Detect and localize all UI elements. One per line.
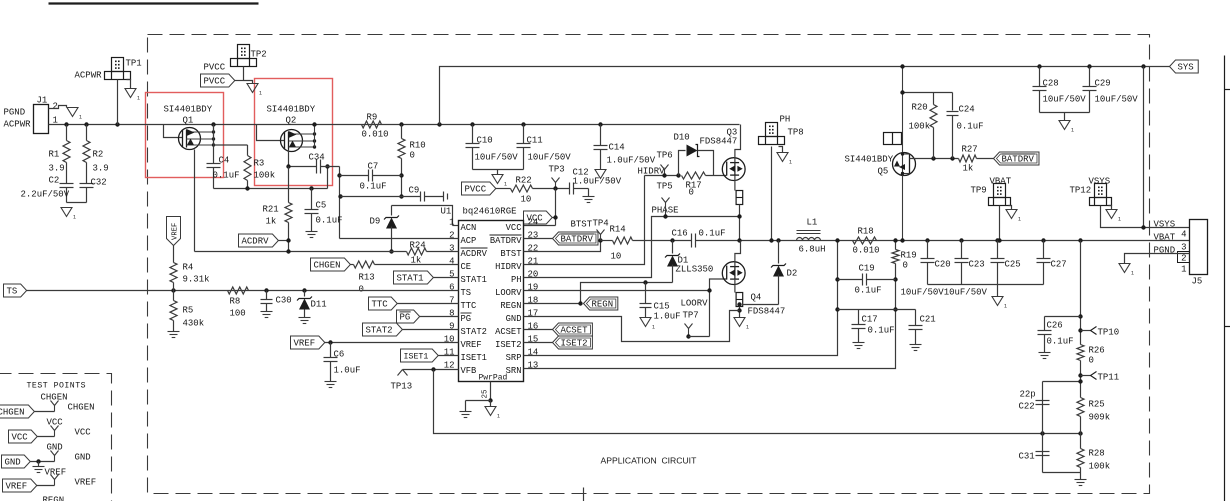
svg-text:22p: 22p: [1020, 390, 1036, 400]
svg-text:6: 6: [449, 283, 454, 293]
svg-text:VCC: VCC: [12, 433, 29, 443]
svg-text:TP9: TP9: [971, 186, 987, 196]
svg-text:TP5: TP5: [657, 182, 673, 192]
svg-text:C19: C19: [859, 264, 875, 274]
svg-text:ISET2: ISET2: [495, 340, 521, 350]
svg-text:PVCC: PVCC: [204, 63, 226, 73]
svg-text:TS: TS: [7, 287, 18, 297]
svg-text:3.9: 3.9: [93, 164, 109, 174]
svg-text:SI4401BDY: SI4401BDY: [267, 105, 316, 115]
svg-text:1: 1: [259, 91, 262, 97]
svg-text:GND: GND: [75, 453, 91, 463]
svg-text:ISET1: ISET1: [461, 353, 487, 363]
svg-text:1.0uF/50V: 1.0uF/50V: [607, 156, 656, 166]
svg-text:VREF: VREF: [6, 482, 28, 492]
svg-text:D9: D9: [370, 217, 381, 227]
svg-text:PwrPad: PwrPad: [479, 374, 508, 383]
svg-text:ACDRV: ACDRV: [242, 237, 270, 247]
svg-text:D10: D10: [674, 133, 690, 143]
svg-text:FDS8447: FDS8447: [748, 307, 786, 317]
svg-text:TS: TS: [461, 288, 472, 298]
svg-text:CHGEN: CHGEN: [41, 393, 68, 403]
svg-text:TP7: TP7: [683, 311, 699, 321]
svg-text:ISET2: ISET2: [561, 339, 588, 349]
svg-text:4: 4: [449, 257, 454, 267]
svg-text:10: 10: [444, 335, 455, 345]
svg-text:ACSET: ACSET: [561, 326, 589, 336]
svg-text:1: 1: [746, 325, 749, 331]
svg-text:R3: R3: [254, 159, 265, 169]
svg-text:PVCC: PVCC: [465, 185, 487, 195]
svg-text:R26: R26: [1089, 346, 1105, 356]
svg-text:VSYS: VSYS: [1089, 177, 1111, 187]
svg-text:C11: C11: [527, 136, 543, 146]
svg-text:VREF: VREF: [45, 468, 67, 478]
svg-text:REGN: REGN: [43, 496, 65, 501]
svg-text:VCC: VCC: [506, 223, 522, 233]
svg-text:100k: 100k: [909, 122, 931, 132]
svg-text:R13: R13: [359, 273, 375, 283]
svg-text:R1: R1: [49, 150, 60, 160]
svg-text:1: 1: [497, 414, 500, 420]
svg-text:PG: PG: [461, 314, 472, 324]
svg-text:C30: C30: [276, 296, 292, 306]
svg-text:PH: PH: [511, 275, 522, 285]
svg-text:1: 1: [652, 325, 655, 331]
svg-text:bq24610RGE: bq24610RGE: [463, 207, 517, 217]
svg-text:TP12: TP12: [1070, 186, 1092, 196]
svg-text:1k: 1k: [963, 164, 974, 174]
svg-text:TP6: TP6: [657, 151, 673, 161]
svg-text:10uF/50V10uF/50V: 10uF/50V10uF/50V: [901, 288, 988, 298]
svg-text:3: 3: [449, 244, 454, 254]
svg-text:21: 21: [528, 257, 539, 267]
svg-text:C2: C2: [49, 176, 60, 186]
svg-text:0: 0: [1089, 356, 1094, 366]
svg-text:ACDRV: ACDRV: [461, 249, 488, 259]
svg-text:0.010: 0.010: [853, 246, 880, 256]
svg-text:R20: R20: [912, 103, 928, 113]
svg-text:HIDRV: HIDRV: [638, 167, 666, 177]
svg-text:R4: R4: [183, 263, 194, 273]
svg-text:1: 1: [1004, 304, 1007, 310]
svg-text:PG: PG: [400, 313, 411, 323]
svg-text:C32: C32: [91, 178, 107, 188]
svg-text:16: 16: [528, 322, 539, 332]
svg-text:R9: R9: [367, 113, 378, 123]
svg-text:18: 18: [528, 296, 539, 306]
svg-text:24: 24: [528, 218, 539, 228]
svg-text:J1: J1: [37, 96, 48, 106]
svg-text:3.9: 3.9: [49, 164, 65, 174]
svg-text:GND: GND: [5, 458, 21, 468]
svg-text:TTC: TTC: [372, 300, 389, 310]
svg-text:PH: PH: [780, 115, 791, 125]
svg-text:BATDRV: BATDRV: [490, 236, 522, 246]
svg-text:R14: R14: [610, 225, 626, 235]
svg-text:SI4401BDY: SI4401BDY: [845, 155, 894, 165]
svg-text:430k: 430k: [183, 319, 205, 329]
svg-text:C5: C5: [316, 201, 327, 211]
svg-text:R27: R27: [962, 145, 978, 155]
svg-text:Q2: Q2: [286, 116, 297, 126]
svg-text:25: 25: [482, 389, 490, 399]
svg-text:VREF: VREF: [75, 478, 97, 488]
svg-text:15: 15: [528, 335, 539, 345]
svg-text:7: 7: [449, 296, 454, 306]
svg-text:8: 8: [449, 309, 454, 319]
svg-text:0.1uF: 0.1uF: [316, 216, 343, 226]
svg-text:C15: C15: [654, 302, 670, 312]
svg-text:0.1uF: 0.1uF: [855, 286, 882, 296]
svg-text:0.1uF: 0.1uF: [957, 122, 984, 132]
svg-text:REGN: REGN: [500, 301, 521, 311]
svg-text:1: 1: [449, 218, 454, 228]
svg-text:GND: GND: [47, 443, 63, 453]
svg-text:L1: L1: [807, 218, 818, 228]
svg-text:C21: C21: [920, 315, 936, 325]
svg-text:23: 23: [528, 231, 539, 241]
svg-text:100k: 100k: [254, 171, 276, 181]
svg-text:2: 2: [449, 231, 454, 241]
svg-text:1: 1: [1131, 271, 1134, 277]
svg-text:C31: C31: [1019, 452, 1035, 462]
svg-text:10uF/50V: 10uF/50V: [1043, 95, 1087, 105]
svg-text:ACP: ACP: [461, 236, 477, 246]
svg-text:6.8uH: 6.8uH: [799, 245, 826, 255]
svg-text:20: 20: [528, 270, 539, 280]
svg-text:14: 14: [528, 348, 539, 358]
svg-text:1: 1: [79, 115, 82, 121]
svg-text:0.1uF: 0.1uF: [360, 182, 387, 192]
svg-text:C28: C28: [1043, 79, 1059, 89]
svg-text:100k: 100k: [1089, 462, 1111, 472]
svg-text:TTC: TTC: [461, 301, 477, 311]
svg-text:1: 1: [1118, 217, 1121, 223]
svg-text:10: 10: [611, 252, 622, 262]
svg-text:0.010: 0.010: [362, 130, 389, 140]
svg-text:R18: R18: [858, 227, 874, 237]
svg-text:D2: D2: [787, 269, 798, 279]
svg-text:C6: C6: [334, 350, 345, 360]
svg-text:U1: U1: [441, 207, 452, 217]
svg-text:C29: C29: [1095, 79, 1111, 89]
svg-text:TP8: TP8: [788, 128, 804, 138]
svg-text:CHGEN: CHGEN: [314, 261, 341, 271]
svg-text:10uF/50V: 10uF/50V: [1095, 95, 1139, 105]
svg-text:ZLLS350: ZLLS350: [676, 265, 714, 275]
svg-text:C25: C25: [1005, 260, 1021, 270]
svg-text:TP1: TP1: [126, 59, 142, 69]
svg-text:SRN: SRN: [506, 366, 522, 376]
svg-text:R5: R5: [183, 306, 194, 316]
svg-text:0.1uF: 0.1uF: [213, 171, 240, 181]
svg-text:0.1uF: 0.1uF: [868, 326, 895, 336]
svg-text:ACN: ACN: [461, 223, 477, 233]
svg-text:C16: C16: [672, 229, 688, 239]
svg-text:R8: R8: [230, 297, 241, 307]
svg-text:C14: C14: [609, 143, 625, 153]
svg-text:R2: R2: [93, 150, 104, 160]
svg-text:FDS8447: FDS8447: [700, 137, 738, 147]
svg-text:0.1uF: 0.1uF: [699, 229, 726, 239]
svg-text:13: 13: [528, 361, 539, 371]
svg-text:LOORV: LOORV: [495, 288, 522, 298]
svg-text:C7: C7: [368, 162, 379, 172]
svg-text:BATDRV: BATDRV: [561, 235, 594, 245]
svg-text:R22: R22: [516, 176, 532, 186]
svg-text:100: 100: [230, 309, 246, 319]
svg-text:ACPWR: ACPWR: [4, 120, 32, 130]
svg-text:BTST: BTST: [500, 249, 521, 259]
svg-text:REGN: REGN: [592, 300, 614, 310]
svg-text:VSYS: VSYS: [1154, 220, 1176, 230]
svg-text:909k: 909k: [1089, 413, 1111, 423]
svg-text:TEST POINTS: TEST POINTS: [27, 382, 87, 391]
svg-text:CE: CE: [461, 262, 472, 272]
svg-text:VREF: VREF: [172, 223, 180, 240]
svg-text:PVCC: PVCC: [204, 77, 226, 87]
svg-text:VREF: VREF: [294, 339, 316, 349]
svg-text:SYS: SYS: [1178, 63, 1194, 73]
svg-text:C26: C26: [1047, 321, 1063, 331]
svg-text:19: 19: [528, 283, 539, 293]
svg-text:R19: R19: [901, 251, 917, 261]
svg-text:10uF/50V: 10uF/50V: [475, 153, 519, 163]
svg-text:R21: R21: [263, 205, 279, 215]
svg-text:17: 17: [528, 309, 539, 319]
svg-text:TP4: TP4: [593, 219, 609, 229]
svg-text:D11: D11: [311, 300, 327, 310]
svg-text:R28: R28: [1089, 449, 1105, 459]
svg-text:1: 1: [504, 182, 507, 188]
svg-text:C34: C34: [309, 153, 325, 163]
svg-text:1.0uF: 1.0uF: [334, 366, 361, 376]
svg-text:SRP: SRP: [506, 353, 522, 363]
svg-text:0: 0: [359, 285, 364, 295]
svg-text:TP13: TP13: [391, 382, 413, 392]
svg-text:CHGEN: CHGEN: [68, 403, 95, 413]
svg-text:C10: C10: [477, 136, 493, 146]
svg-text:VBAT: VBAT: [1154, 233, 1176, 243]
svg-text:ACSET: ACSET: [495, 327, 521, 337]
svg-text:TP10: TP10: [1098, 328, 1120, 338]
svg-text:1: 1: [137, 96, 140, 102]
svg-text:C17: C17: [862, 315, 878, 325]
svg-text:22: 22: [528, 244, 539, 254]
svg-text:2: 2: [53, 102, 58, 112]
svg-text:0: 0: [410, 151, 415, 161]
svg-text:VBAT: VBAT: [990, 177, 1012, 187]
svg-text:10: 10: [521, 195, 532, 205]
svg-text:2.2uF/50V: 2.2uF/50V: [21, 190, 70, 200]
svg-text:1: 1: [789, 160, 792, 166]
svg-text:J5: J5: [1192, 277, 1203, 287]
svg-text:HIDRV: HIDRV: [495, 262, 522, 272]
svg-text:11: 11: [444, 348, 455, 358]
svg-text:C27: C27: [1051, 260, 1067, 270]
svg-text:5: 5: [449, 270, 454, 280]
svg-text:1: 1: [1071, 128, 1074, 134]
svg-text:SI4401BDY: SI4401BDY: [164, 105, 213, 115]
svg-text:STAT1: STAT1: [461, 275, 487, 285]
svg-text:C23: C23: [969, 260, 985, 270]
svg-text:1k: 1k: [266, 217, 277, 227]
svg-text:Q1: Q1: [183, 116, 194, 126]
svg-text:TP2: TP2: [251, 50, 267, 60]
svg-text:STAT2: STAT2: [366, 326, 393, 336]
svg-text:C4: C4: [219, 156, 230, 166]
svg-text:LOORV: LOORV: [681, 299, 709, 309]
svg-text:0: 0: [689, 188, 694, 198]
svg-text:4: 4: [1181, 230, 1186, 240]
svg-text:R24: R24: [410, 241, 426, 251]
svg-text:1.0uF/50V: 1.0uF/50V: [573, 177, 622, 187]
svg-text:1: 1: [1018, 217, 1021, 223]
svg-text:VREF: VREF: [461, 340, 482, 350]
svg-text:TP3: TP3: [549, 165, 565, 175]
svg-text:STAT2: STAT2: [461, 327, 487, 337]
svg-text:APPLICATION CIRCUIT: APPLICATION CIRCUIT: [601, 456, 698, 466]
svg-text:PGND: PGND: [4, 108, 26, 118]
svg-text:CHGEN: CHGEN: [0, 408, 25, 418]
svg-text:Q5: Q5: [878, 167, 889, 177]
svg-text:VFB: VFB: [461, 366, 477, 376]
svg-text:GND: GND: [506, 314, 522, 324]
svg-text:STAT1: STAT1: [397, 274, 424, 284]
svg-text:10uF/50V: 10uF/50V: [528, 153, 572, 163]
svg-text:VCC: VCC: [75, 428, 92, 438]
svg-text:1.0uF: 1.0uF: [654, 312, 681, 322]
svg-text:VCC: VCC: [47, 418, 64, 428]
svg-text:C24: C24: [959, 105, 975, 115]
svg-text:TP11: TP11: [1098, 373, 1120, 383]
svg-text:BTST: BTST: [571, 220, 593, 230]
svg-text:1: 1: [1181, 265, 1186, 275]
svg-text:Q4: Q4: [751, 293, 762, 303]
svg-text:9.31k: 9.31k: [183, 275, 210, 285]
svg-text:ISET1: ISET1: [404, 353, 429, 362]
svg-text:R25: R25: [1089, 400, 1105, 410]
svg-text:C20: C20: [935, 260, 951, 270]
svg-text:C22: C22: [1019, 402, 1035, 412]
svg-text:BATDRV: BATDRV: [1002, 155, 1035, 165]
svg-text:0.1uF: 0.1uF: [1047, 337, 1074, 347]
svg-text:9: 9: [449, 322, 454, 332]
svg-text:ACPWR: ACPWR: [75, 71, 103, 81]
svg-text:0: 0: [903, 261, 908, 271]
svg-text:1: 1: [73, 215, 76, 221]
svg-text:C9: C9: [409, 186, 420, 196]
svg-text:R10: R10: [410, 141, 426, 151]
